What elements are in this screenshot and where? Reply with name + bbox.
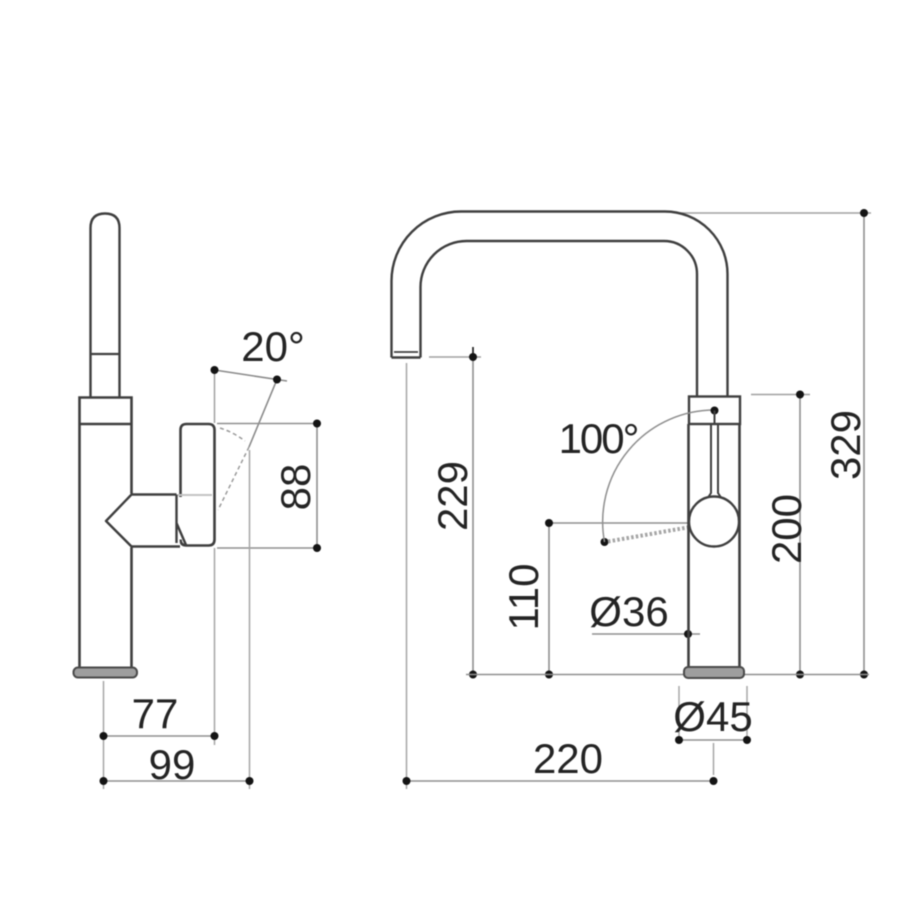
spout tube joint line: [91, 353, 120, 355]
dashed rotated lever line: [608, 523, 713, 542]
handle lever side view: [181, 424, 215, 546]
top block front view: [689, 397, 740, 425]
svg-text:229: 229: [429, 461, 476, 531]
dimension 77 arrow dot left: [100, 732, 108, 740]
body side view outline: [80, 398, 132, 668]
100 degree arc arrow dot: [601, 538, 609, 546]
dimension 329 arrow dot bottom: [860, 671, 868, 679]
dimension 220 extension line left: [406, 363, 408, 789]
dimension diameter 45 extension line left: [678, 686, 680, 742]
dimension 110 arrow dot top: [545, 519, 553, 527]
gooseneck spout outer outline: [392, 212, 728, 398]
dimension 77 line: [104, 735, 216, 737]
dimension 88 arrow dot top: [313, 420, 321, 428]
dimension 220 extension line right: [713, 743, 715, 775]
svg-text:110: 110: [500, 564, 547, 631]
dashed tilted handle top edge: [220, 428, 245, 441]
dimension 329 top extension line: [680, 212, 871, 214]
dimension diameter 45 line: [679, 739, 747, 741]
svg-text:329: 329: [822, 410, 869, 480]
svg-text:200: 200: [763, 494, 810, 564]
spout tube side view: [91, 214, 120, 398]
column front view right edge: [738, 424, 741, 667]
svg-text:Ø36: Ø36: [589, 588, 668, 635]
svg-text:88: 88: [272, 464, 319, 511]
svg-text:20°: 20°: [241, 323, 305, 370]
dimension 329 line: [863, 213, 865, 675]
dimension 77 extension line left: [103, 681, 105, 789]
dimension 229 line: [472, 357, 474, 675]
dimension 229 top extension line: [429, 356, 481, 358]
dimension 220 arrow dot left: [403, 777, 411, 785]
svg-text:77: 77: [132, 690, 179, 737]
lever pivot dot: [711, 407, 719, 415]
dimension 229 arrow dot bottom: [469, 671, 477, 679]
dimension 220 line: [407, 780, 714, 782]
dimension 88 arrow dot bottom: [313, 544, 321, 552]
dimension 20 degrees arrow dot right: [273, 376, 281, 384]
dimension 200 line: [799, 395, 801, 675]
dimension diameter 36 leader line: [592, 633, 700, 635]
ball joint front view: [689, 497, 739, 547]
dimension 99 arrow dot right: [246, 777, 254, 785]
dimension 329 arrow dot top: [860, 209, 868, 217]
lever pivot stem: [714, 411, 716, 425]
dimension 88 bottom extension line: [217, 547, 321, 549]
dimension 20 degrees extension line upper: [214, 370, 216, 423]
base flange side view: [74, 668, 138, 678]
dimension 229 arrow tail: [472, 347, 474, 357]
dimension 20 degrees extension line lower: [214, 548, 216, 745]
handle support side view: [106, 495, 186, 547]
dimension 88 top extension line: [217, 423, 321, 425]
dimension 200 arrow dot bottom: [796, 671, 804, 679]
dimension 200 arrow dot top: [796, 391, 804, 399]
svg-text:Ø45: Ø45: [673, 693, 752, 740]
dimension 99 line: [104, 780, 251, 782]
svg-text:220: 220: [533, 735, 603, 782]
deck reference line: [466, 674, 869, 676]
dimension 220 arrow dot right: [710, 777, 718, 785]
dimension 229 arrow dot top: [469, 353, 477, 361]
svg-text:99: 99: [149, 741, 196, 788]
spout outlet inner line: [394, 351, 418, 353]
column front view left edge: [687, 424, 690, 667]
dimension 20 degrees slanted handle-axis leg: [249, 380, 277, 448]
dimension 20 degrees slanted top leg: [215, 370, 288, 381]
body shoulder line: [80, 423, 132, 425]
dimension diameter 45 arrow dot right: [743, 736, 751, 744]
dimension 200 top extension line: [751, 394, 810, 396]
dimension 99 arrow dot left: [100, 777, 108, 785]
spout outlet bottom edge: [392, 356, 421, 358]
handle mid joint faint line: [178, 494, 212, 496]
dimension 99 extension line right: [249, 450, 251, 789]
100 degree arc: [603, 410, 715, 542]
dimension 110 line: [548, 523, 550, 675]
dimension diameter 36 arrow dot: [684, 630, 692, 638]
dimension diameter 45 extension line right: [746, 686, 748, 742]
dimension 110 top extension line: [549, 522, 688, 524]
dimension 110 arrow dot bottom: [545, 671, 553, 679]
dimension 20 degrees arrow dot left: [211, 366, 219, 374]
dimension 88 line: [316, 424, 318, 549]
dimension diameter 45 arrow dot left: [675, 736, 683, 744]
dimension 77 arrow dot right: [211, 732, 219, 740]
gooseneck spout inner outline: [421, 241, 698, 397]
base flange front view: [684, 667, 744, 678]
dashed tilted handle axis: [218, 447, 249, 510]
lever rod front view: [708, 425, 721, 498]
